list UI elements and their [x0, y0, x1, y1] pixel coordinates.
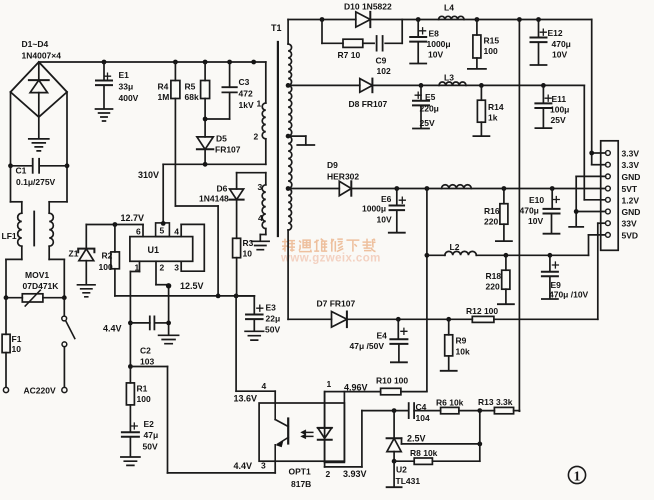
- diode D8: [360, 79, 373, 93]
- svg-text:10k: 10k: [456, 347, 470, 357]
- svg-text:104: 104: [416, 413, 430, 423]
- svg-text:R10 100: R10 100: [376, 376, 408, 386]
- svg-text:U2: U2: [396, 465, 407, 475]
- svg-text:470μ: 470μ: [552, 39, 571, 49]
- watermark: [280, 239, 381, 265]
- capacitor C2: [130, 322, 149, 324]
- OPT1 led box: [325, 392, 345, 463]
- capacitor E9: [549, 255, 551, 271]
- svg-text:310V: 310V: [138, 170, 159, 180]
- capacitor E8: [417, 20, 419, 37]
- switch SW: [63, 298, 65, 316]
- U1 pin3-4 bracket: [180, 224, 182, 236]
- common bar connector GND: [569, 226, 583, 228]
- svg-text:E12: E12: [548, 28, 563, 38]
- svg-text:1N4007×4: 1N4007×4: [22, 51, 62, 61]
- node L2 feed top: [425, 186, 430, 191]
- T1 primary winding 1-2: [262, 103, 266, 139]
- svg-text:FR107: FR107: [215, 145, 241, 155]
- svg-text:C1: C1: [16, 166, 27, 176]
- node E9 top: [548, 253, 553, 258]
- wire R10 to L2feed: [401, 391, 427, 393]
- capacitor C3: [229, 62, 231, 87]
- svg-text:OPT1: OPT1: [289, 467, 311, 477]
- wire rail3: [288, 188, 339, 190]
- svg-text:D10 1N5822: D10 1N5822: [344, 2, 392, 12]
- svg-text:817B: 817B: [291, 479, 311, 489]
- node R4 top: [173, 60, 178, 65]
- svg-text:4: 4: [174, 227, 179, 237]
- ground E3: [245, 331, 264, 340]
- svg-text:12.5V: 12.5V: [180, 281, 204, 291]
- node E10 top: [550, 186, 555, 191]
- diode D10: [356, 12, 371, 27]
- svg-text:102: 102: [377, 66, 391, 76]
- line filter LF1 left winding: [11, 201, 22, 203]
- svg-text:33μ: 33μ: [119, 82, 134, 92]
- node 4.4V: [128, 321, 133, 326]
- node C2 right: [166, 321, 171, 326]
- wire rail5: [288, 318, 331, 320]
- svg-text:1: 1: [257, 99, 262, 109]
- wire rail4: [427, 254, 445, 256]
- fuse F1: [5, 298, 7, 335]
- resistor R15: [476, 20, 478, 36]
- svg-text:T1: T1: [271, 23, 282, 33]
- svg-text:E2: E2: [144, 419, 155, 429]
- wire rail2: [288, 84, 360, 86]
- svg-text:1k: 1k: [488, 113, 498, 123]
- node R3 bottom join: [234, 294, 239, 299]
- node R5 top: [203, 60, 208, 65]
- common bar E12: [531, 64, 547, 66]
- line filter LF1 right winding: [49, 201, 67, 203]
- line filter LF1 core: [33, 212, 35, 246]
- svg-text:D7 FR107: D7 FR107: [317, 299, 356, 309]
- svg-text:E3: E3: [266, 303, 277, 313]
- ground Z1: [78, 285, 96, 297]
- OPT1 pin3 stub: [274, 461, 276, 473]
- capacitor E6: [396, 189, 398, 206]
- terminal AC L: [3, 387, 8, 392]
- svg-text:10V: 10V: [528, 216, 543, 226]
- svg-text:100: 100: [99, 262, 113, 272]
- svg-text:1: 1: [327, 379, 332, 389]
- svg-text:10: 10: [12, 344, 22, 354]
- ground U1 pin2: [159, 335, 179, 343]
- common bar R14: [473, 135, 489, 137]
- svg-text:68k: 68k: [185, 92, 199, 102]
- resistor R18: [505, 255, 507, 270]
- svg-text:C2: C2: [140, 346, 151, 356]
- wire 13.6V to OPT1 pin4: [235, 296, 237, 391]
- node pin1 3.3V: [589, 151, 594, 156]
- capacitor C1: [11, 165, 32, 167]
- resistor R8: [394, 460, 414, 462]
- node U2 anode: [392, 459, 397, 464]
- svg-text:25V: 25V: [420, 118, 435, 128]
- node C3 top: [227, 60, 232, 65]
- svg-text:47μ /50V: 47μ /50V: [350, 341, 385, 351]
- svg-text:R12 100: R12 100: [466, 306, 498, 316]
- common bar E4: [391, 361, 407, 363]
- diode D7: [332, 312, 347, 328]
- wire 12.7V line: [86, 224, 143, 226]
- svg-text:F1: F1: [12, 334, 22, 344]
- svg-text:R3: R3: [243, 238, 254, 248]
- inductor rail3: [442, 185, 472, 189]
- T1 aux winding 3-4: [237, 172, 266, 174]
- svg-text:R7 10: R7 10: [338, 50, 361, 60]
- resistor R2: [114, 225, 116, 252]
- wire U2 anode down: [393, 461, 395, 487]
- svg-text:E10: E10: [529, 195, 544, 205]
- svg-text:D1~D4: D1~D4: [22, 39, 49, 49]
- svg-text:3.93V: 3.93V: [343, 469, 367, 479]
- svg-text:R15: R15: [484, 36, 500, 46]
- svg-text:C3: C3: [239, 77, 250, 87]
- node R16 top: [502, 186, 507, 191]
- svg-text:C9: C9: [376, 56, 387, 66]
- T1 secondary winding: [287, 20, 289, 45]
- svg-text:AC220V: AC220V: [24, 386, 56, 396]
- wire bridge right leg: [66, 92, 68, 202]
- wire rail1: [288, 19, 356, 21]
- node secondary tap D9: [286, 186, 291, 191]
- svg-text:4.4V: 4.4V: [234, 461, 253, 471]
- svg-text:E9: E9: [551, 280, 562, 290]
- svg-text:MOV1: MOV1: [25, 270, 49, 280]
- node pin6 GND: [574, 209, 579, 214]
- svg-text:472: 472: [239, 89, 253, 99]
- svg-text:TL431: TL431: [396, 476, 421, 486]
- svg-text:R4: R4: [158, 82, 169, 92]
- svg-text:100: 100: [484, 46, 498, 56]
- wire 310V to primary pin1: [265, 62, 267, 103]
- wire OPT1 pin2 to C4: [324, 462, 326, 467]
- node R2 top: [113, 222, 118, 227]
- common bar E9: [542, 298, 558, 300]
- node snubber left: [320, 17, 325, 22]
- node E12 top: [536, 17, 541, 22]
- node E11 top: [541, 83, 546, 88]
- node 2.5V: [477, 442, 482, 447]
- shunt regulator U2 TL431: [393, 411, 395, 439]
- node R9 top: [446, 317, 451, 322]
- svg-text:R14: R14: [488, 102, 504, 112]
- wire U1 pin2: [155, 261, 157, 284]
- svg-text:LF1: LF1: [2, 231, 17, 241]
- node R15 top: [475, 17, 480, 22]
- wire center tap to common: [288, 135, 306, 137]
- U1 pin5: [156, 223, 170, 237]
- resistor R14: [480, 85, 482, 100]
- node 12.5V: [166, 283, 171, 288]
- capacitor C4: [408, 403, 410, 418]
- svg-text:400V: 400V: [119, 93, 139, 103]
- svg-text:0.1μ/275V: 0.1μ/275V: [16, 177, 56, 187]
- U1 body: [130, 237, 193, 262]
- common bar R15: [468, 68, 486, 70]
- capacitor E3: [236, 295, 254, 297]
- zener Z1: [85, 225, 87, 249]
- wire bridge left leg: [10, 92, 12, 202]
- node E4 top: [396, 317, 401, 322]
- svg-text:100μ: 100μ: [550, 105, 569, 115]
- svg-text:L3: L3: [444, 73, 454, 83]
- resistor R12: [472, 316, 494, 322]
- svg-text:E4: E4: [377, 331, 388, 341]
- node MOV1 right: [62, 295, 67, 300]
- resistor R16: [503, 189, 505, 204]
- resistor R1: [129, 367, 131, 383]
- svg-text:470μ: 470μ: [520, 206, 539, 216]
- wire 13.6V node line: [115, 295, 254, 297]
- svg-text:25V: 25V: [551, 115, 566, 125]
- common bar E8: [410, 63, 426, 65]
- svg-text:E5: E5: [425, 92, 436, 102]
- svg-text:1.2V: 1.2V: [622, 195, 640, 205]
- svg-text:1000μ: 1000μ: [427, 39, 451, 49]
- connector CN1 pins: [606, 151, 611, 156]
- wire C4 line: [362, 410, 408, 412]
- bridge rectifier D1-D4 diamond: [11, 62, 68, 117]
- wire R6 to node: [459, 410, 480, 412]
- svg-text:R1: R1: [137, 384, 148, 394]
- ground E1: [96, 109, 113, 121]
- node C1 right: [65, 163, 70, 168]
- bridge internal diode: [38, 64, 40, 79]
- diode D5: [197, 137, 213, 149]
- svg-text:3.3V: 3.3V: [622, 149, 640, 159]
- common bar center tap: [297, 144, 314, 146]
- svg-text:GND: GND: [622, 172, 641, 182]
- wire 4.4V to OPT1 pin3: [130, 366, 167, 368]
- svg-text:3: 3: [258, 182, 263, 192]
- svg-text:4: 4: [258, 213, 263, 223]
- svg-text:3.3V: 3.3V: [622, 160, 640, 170]
- capacitor E2: [122, 431, 139, 433]
- node secondary tap D8: [286, 83, 291, 88]
- diode D6: [236, 173, 238, 189]
- svg-text:R5: R5: [185, 82, 196, 92]
- svg-text:D9: D9: [327, 160, 338, 170]
- svg-text:100: 100: [137, 394, 151, 404]
- resistor R9: [448, 319, 450, 335]
- resistor R6: [441, 407, 459, 413]
- node R18 top: [504, 253, 509, 258]
- svg-text:470μ /10V: 470μ /10V: [549, 290, 589, 300]
- svg-text:50V: 50V: [143, 442, 158, 452]
- node E6 top: [394, 186, 399, 191]
- wire U1 pin1: [139, 261, 141, 271]
- svg-text:5: 5: [160, 226, 165, 236]
- figure number 1: [568, 466, 585, 483]
- svg-text:D8 FR107: D8 FR107: [349, 99, 388, 109]
- svg-text:R16: R16: [484, 206, 500, 216]
- svg-text:Z1: Z1: [69, 249, 79, 259]
- svg-text:R2: R2: [102, 251, 113, 261]
- common bar R16: [496, 240, 512, 242]
- svg-text:103: 103: [140, 357, 154, 367]
- svg-text:10V: 10V: [428, 50, 443, 60]
- svg-text:50V: 50V: [265, 325, 280, 335]
- svg-text:2: 2: [326, 469, 331, 479]
- svg-text:2: 2: [254, 132, 259, 142]
- svg-text:R13 3.3k: R13 3.3k: [478, 397, 513, 407]
- svg-text:E6: E6: [381, 194, 392, 204]
- resistor R3: [233, 238, 241, 257]
- capacitor E11: [542, 85, 544, 103]
- svg-text:R8 10k: R8 10k: [410, 448, 438, 458]
- svg-text:10V: 10V: [377, 215, 392, 225]
- diode D9: [339, 181, 351, 195]
- wire R13 to sense: [514, 410, 520, 412]
- connector CN1 box: [601, 141, 619, 251]
- common bar R18: [498, 303, 514, 305]
- transformer T1 core: [277, 42, 279, 236]
- resistor R13: [494, 407, 513, 413]
- node E1 top: [102, 60, 107, 65]
- svg-text:L4: L4: [444, 3, 454, 13]
- node D5 cathode: [203, 162, 208, 167]
- svg-text:4.4V: 4.4V: [103, 324, 122, 334]
- wire 4.96V rail: [344, 391, 380, 393]
- terminal AC N: [62, 387, 67, 392]
- svg-text:13.6V: 13.6V: [234, 394, 258, 404]
- resistor R10: [381, 388, 401, 395]
- node MOV1 left: [4, 295, 9, 300]
- wire drain line 310V: [163, 163, 266, 165]
- ground aux winding: [252, 241, 270, 249]
- svg-text:1: 1: [574, 469, 581, 484]
- node R4 line join: [216, 294, 221, 299]
- svg-text:1N4148: 1N4148: [199, 194, 229, 204]
- svg-text:1000μ: 1000μ: [362, 204, 386, 214]
- wire ref vertical: [479, 411, 481, 462]
- node pin5: [161, 221, 166, 226]
- capacitor E4: [397, 319, 399, 339]
- optocoupler OPT1 box: [259, 403, 344, 461]
- capacitor E5: [420, 85, 422, 100]
- svg-text:3: 3: [174, 263, 179, 273]
- svg-text:220: 220: [486, 282, 500, 292]
- common bar E5: [413, 128, 429, 130]
- resistor R5: [204, 62, 206, 81]
- svg-text:HER302: HER302: [327, 172, 359, 182]
- node C1 left: [8, 163, 13, 168]
- node E5 top: [419, 83, 424, 88]
- svg-text:6: 6: [136, 227, 141, 237]
- node secondary center tap: [286, 134, 291, 139]
- svg-text:E1: E1: [119, 70, 130, 80]
- bridge internal ground: [29, 139, 49, 151]
- wire R4 bottom to 13.6V node: [174, 99, 176, 207]
- svg-text:1kV: 1kV: [239, 100, 254, 110]
- resistor R4: [174, 62, 176, 81]
- svg-text:5VT: 5VT: [622, 184, 638, 194]
- svg-text:220: 220: [484, 217, 498, 227]
- OPT1 phototransistor: [274, 403, 276, 420]
- node R1 top: [128, 364, 133, 369]
- svg-text:07D471K: 07D471K: [23, 281, 60, 291]
- svg-text:E11: E11: [552, 94, 567, 104]
- OPT1 light arrows: [305, 432, 313, 436]
- wire 3.3V sense: [518, 20, 520, 412]
- common bar E11: [535, 127, 551, 129]
- varistor MOV1: [6, 297, 22, 299]
- node rail dot: [251, 60, 256, 65]
- snubber R7: [321, 20, 323, 44]
- ground E2: [121, 457, 140, 465]
- svg-text:D6: D6: [217, 184, 228, 194]
- svg-text:22μ: 22μ: [266, 314, 281, 324]
- capacitor E10: [551, 189, 553, 209]
- common bar U2: [387, 486, 402, 488]
- svg-text:R18: R18: [486, 271, 502, 281]
- svg-text:10: 10: [243, 249, 253, 259]
- svg-text:47μ: 47μ: [144, 430, 159, 440]
- svg-text:12.7V: 12.7V: [121, 213, 145, 223]
- capacitor E1: [103, 62, 105, 80]
- svg-text:www.gzweix.com: www.gzweix.com: [280, 253, 381, 265]
- svg-text:220μ: 220μ: [420, 104, 439, 114]
- svg-text:1M: 1M: [158, 92, 170, 102]
- svg-text:R9: R9: [456, 336, 467, 346]
- svg-text:D5: D5: [216, 134, 227, 144]
- svg-text:E8: E8: [429, 29, 440, 39]
- svg-text:U1: U1: [148, 245, 160, 255]
- node E8 top: [416, 17, 421, 22]
- OPT1 led: [324, 392, 326, 428]
- node 3.3V sense top: [517, 17, 522, 22]
- wire 2.5V ref: [401, 438, 403, 444]
- common bar R9: [441, 370, 457, 372]
- snubber C9: [376, 36, 378, 51]
- svg-text:GND: GND: [622, 207, 641, 217]
- svg-text:2: 2: [160, 263, 165, 273]
- svg-text:4: 4: [262, 381, 267, 391]
- node L2 in: [425, 253, 430, 258]
- node C3-R5 junction: [203, 117, 208, 122]
- svg-text:L2: L2: [450, 242, 460, 252]
- common bar E10: [544, 233, 560, 235]
- wire node to R13: [480, 410, 495, 412]
- node R6-R13: [477, 408, 482, 413]
- wire GND pins 3+6: [576, 175, 605, 177]
- svg-text:5VD: 5VD: [622, 230, 639, 240]
- wire C4 to R6: [414, 410, 441, 412]
- common bar E6: [389, 232, 405, 234]
- wire 310V rail: [39, 61, 266, 63]
- wire L2 feed: [426, 189, 428, 256]
- node C4 left: [392, 408, 397, 413]
- capacitor E12: [538, 20, 540, 38]
- svg-text:2.5V: 2.5V: [407, 434, 426, 444]
- svg-text:33V: 33V: [622, 219, 637, 229]
- svg-text:R6 10k: R6 10k: [436, 398, 464, 408]
- node R14 top: [479, 83, 484, 88]
- svg-text:10V: 10V: [552, 50, 567, 60]
- wire rail1 to pins 1-2: [591, 20, 593, 165]
